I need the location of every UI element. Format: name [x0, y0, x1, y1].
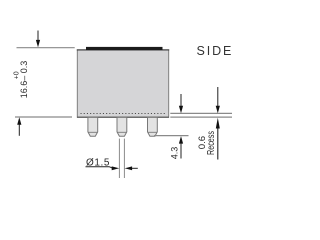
extension line: middle pin tip right edge — [123, 139, 125, 178]
body top edge (dark) — [77, 49, 169, 51]
extension line: recess level (right) — [170, 112, 232, 114]
svg-text:16.6– 0.3: 16.6– 0.3 — [19, 61, 29, 99]
dimension arrow up (16.6 bottom) — [17, 117, 21, 136]
svg-text:4.3: 4.3 — [169, 147, 179, 160]
extension line: case bottom (right) — [170, 116, 232, 118]
pin 3 (right terminal) — [148, 117, 158, 136]
dimension arrow down (0.6 top) — [216, 87, 220, 113]
dimension text 0.6 (rotated) — [197, 136, 207, 149]
body bottom edge (dark) — [77, 116, 169, 118]
relay body (side view case) — [77, 50, 168, 117]
dimension text 16.6 +0/-0.3 (rotated) — [14, 61, 30, 99]
dimension arrow up (4.3 bottom) — [179, 136, 183, 158]
dimension arrow down (4.3 top) — [179, 94, 183, 113]
dimension arrow down (16.6 top) — [36, 31, 40, 48]
recess dotted line inside case bottom — [81, 113, 167, 115]
svg-text:Recess: Recess — [206, 131, 217, 155]
svg-text:SIDE: SIDE — [197, 44, 234, 58]
dimension text 4.3 (rotated) — [169, 147, 179, 160]
pin 2 (middle terminal) — [117, 117, 127, 136]
leader text Ø1.5 with underline — [86, 157, 111, 168]
pin 1 (left terminal) — [88, 117, 98, 136]
leader arrow right (Ø1.5 left) — [110, 166, 120, 170]
extension line: case bottom (left) — [15, 116, 72, 118]
top plate (black strip) — [86, 47, 163, 50]
svg-text:+0: +0 — [14, 71, 21, 79]
dimension text Recess (rotated) — [206, 131, 217, 155]
dimension arrow up (0.6 bottom) — [216, 118, 220, 160]
extension line: pin tip level — [154, 135, 189, 137]
leader arrow left (Ø1.5 right) — [125, 166, 138, 170]
extension line: case top (left) — [17, 47, 75, 49]
extension line: middle pin tip left edge — [118, 139, 120, 178]
